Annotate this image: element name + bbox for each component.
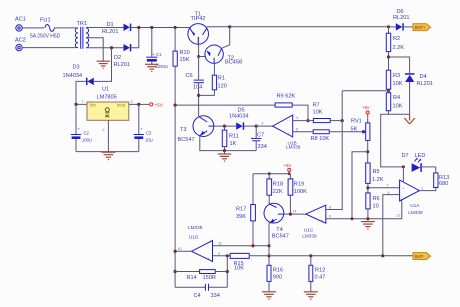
- wire secondary bottom to D2: [86, 47, 124, 49]
- wire D1 cathode along top rail: [131, 27, 190, 29]
- svg-text:LM339: LM339: [188, 225, 203, 230]
- svg-text:9: 9: [329, 215, 331, 219]
- svg-text:10K: 10K: [313, 109, 323, 115]
- wire U1B upper input: [293, 120, 314, 122]
- svg-text:R5: R5: [373, 169, 380, 175]
- svg-text:BAT-: BAT-: [415, 254, 425, 259]
- node (R2-R3 / D4 jog): [387, 55, 390, 58]
- svg-text:+: +: [402, 186, 404, 190]
- wire U1D upper input row: [213, 245, 270, 247]
- wire R1 bottom L: [199, 90, 215, 96]
- resistor R17 39K: [236, 174, 255, 246]
- svg-text:D5: D5: [238, 108, 245, 114]
- svg-text:TR1: TR1: [77, 21, 88, 27]
- svg-text:+: +: [321, 218, 323, 222]
- node (RV1 bottom / line B): [366, 150, 369, 153]
- svg-text:R2: R2: [393, 36, 400, 42]
- node (line B join): [351, 217, 354, 220]
- wire pullup top rail: [253, 173, 290, 175]
- wire R8 right to RV1 wiper: [329, 131, 364, 133]
- wire D3 to U1 Vin: [76, 81, 87, 104]
- svg-text:R7: R7: [313, 103, 320, 109]
- wire U1 Vout to +5V: [129, 103, 150, 105]
- svg-text:LM339: LM339: [302, 234, 317, 239]
- resistor R14 150R: [175, 270, 227, 281]
- node (RV1 wiper): [362, 130, 365, 133]
- wire R3-R4: [388, 89, 390, 93]
- diode D3 1N4034 (cathode left): [63, 65, 94, 85]
- resistor R6 10: [366, 193, 380, 210]
- svg-text:RL201: RL201: [102, 29, 118, 35]
- led D7 LED: [402, 153, 426, 172]
- svg-text:T3: T3: [180, 127, 187, 133]
- port BAT+: [413, 24, 431, 31]
- svg-text:D4: D4: [420, 74, 427, 80]
- wire U1 ground pin: [107, 120, 109, 151]
- svg-text:U1C: U1C: [304, 228, 314, 233]
- capacitor C3 10U: [134, 127, 153, 143]
- svg-text:LM339: LM339: [408, 210, 423, 215]
- terminal AC2: [15, 38, 26, 51]
- svg-text:R3: R3: [393, 73, 400, 79]
- transistor T1 TIP42: [188, 11, 209, 44]
- power port +5V (pullups): [284, 163, 292, 175]
- svg-text:C7: C7: [257, 133, 264, 139]
- svg-text:U1D: U1D: [189, 235, 199, 240]
- ground (divider, arrow style): [404, 114, 415, 124]
- svg-text:2: 2: [262, 122, 264, 126]
- svg-text:FU1: FU1: [40, 18, 51, 24]
- ground (C1): [145, 62, 159, 72]
- svg-text:100U: 100U: [82, 138, 92, 143]
- wire D4 anode down: [409, 82, 411, 114]
- wire AC2 to transformer: [22, 47, 78, 49]
- svg-text:7: 7: [387, 184, 389, 188]
- svg-text:Vin: Vin: [90, 103, 97, 108]
- wire LED cathode row: [422, 166, 436, 168]
- svg-text:2200U: 2200U: [156, 64, 168, 69]
- wire secondary top to D1: [86, 27, 124, 29]
- resistor R18 22K: [267, 174, 283, 196]
- resistor R11 1K: [222, 126, 239, 151]
- svg-text:+: +: [288, 132, 290, 136]
- node (T2 base join): [197, 55, 200, 58]
- svg-text:RL201: RL201: [417, 81, 433, 87]
- svg-text:10K: 10K: [234, 266, 244, 272]
- svg-text:C4: C4: [194, 293, 201, 299]
- node (D1-D2 join): [137, 26, 140, 29]
- wire D2 cathode riser: [131, 28, 139, 48]
- svg-text:LM7805: LM7805: [97, 94, 117, 100]
- node (emitter / bottom rail): [267, 254, 270, 257]
- svg-text:RL201: RL201: [114, 62, 130, 68]
- resistor R7 10K: [313, 103, 331, 123]
- svg-text:+: +: [208, 257, 210, 261]
- svg-text:150R: 150R: [203, 275, 216, 281]
- ground (T3 emitter rail): [218, 151, 232, 162]
- wire R7 right to divider line: [330, 120, 342, 122]
- svg-text:39K: 39K: [236, 214, 246, 220]
- node (R3-R4 divider tap): [387, 89, 390, 92]
- wire U1D output to left rail: [175, 250, 191, 252]
- node (R14 right): [226, 270, 229, 273]
- svg-text:RL201: RL201: [393, 15, 409, 21]
- svg-text:10K: 10K: [393, 103, 403, 109]
- svg-text:R8 10K: R8 10K: [311, 136, 330, 142]
- node (R19 bottom / base): [289, 213, 292, 216]
- svg-text:+5V: +5V: [362, 105, 370, 110]
- resistor R10 15K: [173, 28, 190, 67]
- ground (R12): [304, 292, 318, 299]
- resistor R4 10K: [386, 93, 402, 111]
- svg-text:12: 12: [397, 213, 401, 217]
- svg-text:4: 4: [296, 116, 298, 120]
- op-amp U1A LM339: [387, 180, 424, 215]
- svg-text:C3: C3: [146, 131, 152, 136]
- wire line A (divider to U1C in+): [326, 91, 342, 210]
- capacitor C6 104: [186, 73, 205, 91]
- diode D2 RL201: [114, 44, 132, 68]
- svg-text:D2: D2: [114, 55, 121, 61]
- svg-text:1K: 1K: [230, 141, 237, 147]
- wire top rail right of T1: [207, 26, 389, 28]
- ground (U1 rail): [101, 152, 115, 159]
- op-amp U1B LM339: [262, 115, 301, 149]
- svg-text:R4: R4: [393, 95, 400, 101]
- wire R14 right riser: [226, 256, 228, 287]
- transistor T3 BC547: [178, 116, 214, 143]
- svg-text:+ C1: + C1: [153, 52, 163, 57]
- svg-text:5: 5: [296, 127, 298, 131]
- transformer TR1: [75, 21, 88, 49]
- node (R6 / ground): [366, 217, 369, 220]
- terminal AC1: [15, 17, 26, 31]
- transistor T4 BC547: [264, 203, 289, 239]
- resistor R15 10K: [230, 253, 249, 271]
- wire AC1 to fuse: [22, 27, 44, 29]
- node (R2 top / D6 anode): [387, 25, 390, 28]
- svg-text:2: 2: [103, 128, 105, 132]
- diode D5 1N4034: [229, 108, 249, 130]
- op-amp U1D LM339: [178, 225, 222, 261]
- wire C3 branch: [138, 104, 140, 134]
- svg-text:10: 10: [178, 247, 182, 251]
- capacitor C2 100U: [71, 127, 92, 143]
- svg-text:R12: R12: [315, 267, 325, 273]
- wire D6 anode: [389, 26, 396, 28]
- wire T1 base column: [198, 37, 200, 80]
- resistor R8 10K: [311, 130, 330, 142]
- svg-text:R16: R16: [273, 267, 283, 273]
- svg-text:5A 250V H5D: 5A 250V H5D: [30, 34, 61, 40]
- svg-text:Vout: Vout: [117, 103, 127, 108]
- svg-text:BC547: BC547: [272, 233, 289, 239]
- wire bottom rail to port: [249, 255, 413, 257]
- resistor R16 900: [267, 265, 283, 291]
- svg-text:22K: 22K: [273, 189, 283, 195]
- svg-text:1: 1: [422, 186, 424, 190]
- resistor R9 62K: [275, 93, 295, 107]
- wire line B (RV1 bottom to U1C in-): [352, 152, 368, 219]
- wire C6 bottom / R1 join: [198, 83, 200, 116]
- node (R12 top): [309, 254, 312, 257]
- wire T3 emitter rail: [200, 136, 256, 151]
- svg-text:R19: R19: [294, 182, 304, 188]
- svg-text:D3: D3: [73, 65, 80, 71]
- resistor R19 100K: [288, 174, 307, 214]
- ground (R6): [361, 222, 375, 229]
- svg-text:0.47: 0.47: [315, 274, 326, 280]
- svg-text:BC547: BC547: [178, 137, 195, 143]
- wire tap to U1A in+: [368, 187, 400, 189]
- wire center tap: [86, 38, 103, 61]
- node (C3 tap): [137, 103, 140, 106]
- svg-text:R17: R17: [236, 207, 246, 213]
- svg-text:LED: LED: [415, 153, 426, 159]
- svg-text:1N4034: 1N4034: [229, 114, 249, 120]
- wire U1D lower input: [213, 255, 231, 257]
- wire U1A V+ stub: [402, 167, 404, 182]
- wire R9 right to U1B plus input: [292, 105, 308, 121]
- svg-text:2.2K: 2.2K: [393, 45, 405, 51]
- regulator U1 LM7805: [82, 86, 133, 132]
- wire R4 bottom left branch to LED row: [381, 114, 404, 167]
- wire left feedback rail: [174, 105, 176, 287]
- wire T2 base: [199, 56, 206, 58]
- svg-text:D1: D1: [107, 22, 114, 28]
- svg-text:1N4034: 1N4034: [63, 73, 83, 79]
- wire U1A in- riser to bottom rail: [383, 195, 400, 256]
- svg-text:900: 900: [273, 274, 282, 280]
- svg-text:U1A: U1A: [410, 203, 420, 208]
- svg-text:R6: R6: [373, 196, 380, 202]
- wire U1C in- row / ground row: [326, 218, 402, 220]
- node (T2 collector tap): [228, 25, 231, 28]
- power port +5V: [150, 103, 164, 108]
- node (R11 bottom / ground): [223, 149, 226, 152]
- node (C6-R1-T3 junction): [197, 94, 200, 97]
- wire U1B lower input to R8: [293, 131, 314, 133]
- wire R4 bottom / D4 ground row: [389, 111, 410, 114]
- svg-text:10K: 10K: [393, 81, 403, 87]
- port BAT-: [413, 253, 431, 260]
- node (R5-R6 tap): [366, 186, 369, 189]
- fuse FU1: [30, 18, 61, 40]
- svg-text:+5V: +5V: [284, 163, 292, 168]
- wire bottom rail under U1: [76, 151, 139, 153]
- op-amp U1C LM339: [293, 205, 332, 238]
- svg-text:C6: C6: [186, 73, 193, 79]
- svg-text:TIP42: TIP42: [191, 16, 206, 22]
- resistor R12 0.47: [309, 256, 325, 292]
- transistor T2 BC458: [205, 45, 242, 66]
- wire D4 cathode jog: [389, 57, 410, 73]
- svg-text:15K: 15K: [180, 57, 190, 63]
- svg-text:R14: R14: [187, 275, 197, 281]
- svg-text:680: 680: [439, 181, 448, 187]
- node (R9/R7 join): [306, 119, 309, 122]
- capacitor C1 2200U: [146, 52, 168, 69]
- node (U1D out): [174, 250, 177, 253]
- svg-text:R11: R11: [229, 134, 239, 140]
- diode D4 RL201 (pointing up): [405, 73, 433, 87]
- node (C7 top / U1B out): [255, 125, 258, 128]
- node (U1A in- riser): [381, 254, 384, 257]
- wire R9 left (feedback): [175, 104, 275, 106]
- wire R5-R6 tap: [367, 183, 369, 193]
- wire U1C in+: [326, 209, 342, 211]
- svg-text:AC1: AC1: [15, 17, 26, 23]
- svg-text:1: 1: [82, 99, 84, 103]
- svg-text:T4: T4: [276, 227, 283, 233]
- resistor R2 2.2K: [386, 27, 404, 70]
- node (D7 anode / U1A V+ stub): [402, 165, 405, 168]
- svg-text:R1: R1: [218, 76, 225, 82]
- svg-text:120: 120: [218, 84, 227, 90]
- wire T3 base to R11/D5: [214, 125, 237, 127]
- wire D6 cathode to port: [404, 26, 413, 28]
- node (R7 / line A): [341, 119, 344, 122]
- wire fuse to transformer: [54, 27, 78, 29]
- svg-text:5K: 5K: [351, 126, 358, 132]
- svg-text:10: 10: [373, 204, 379, 210]
- diode D1 RL201: [102, 22, 131, 35]
- wire C2 to bottom rail: [75, 139, 77, 152]
- node (D2 anode tap): [110, 46, 113, 49]
- svg-text:11: 11: [218, 242, 222, 246]
- wire C3 to bottom rail: [138, 139, 140, 152]
- svg-text:1.2K: 1.2K: [372, 177, 384, 183]
- node (R18 top): [268, 172, 271, 175]
- svg-text:BC458: BC458: [225, 60, 242, 66]
- wire U1A output to R13: [419, 188, 435, 191]
- ground (R16): [262, 292, 276, 299]
- wire U1A V- stub: [401, 199, 403, 219]
- wire D5 cathode to C7 node: [244, 125, 256, 127]
- svg-text:14: 14: [293, 210, 297, 214]
- svg-text:104: 104: [193, 85, 202, 91]
- wire D2 tap down to D3: [94, 48, 112, 82]
- power port +5V (RV1 top): [362, 105, 370, 117]
- svg-text:R13: R13: [439, 175, 449, 181]
- svg-text:BAT+: BAT+: [415, 25, 426, 30]
- svg-text:100K: 100K: [294, 189, 307, 195]
- wire C2 branch: [75, 104, 77, 134]
- svg-text:10U: 10U: [145, 138, 153, 143]
- svg-text:R10: R10: [180, 50, 190, 56]
- ground (transformer center tap): [97, 61, 110, 68]
- node (C1 tap): [150, 26, 153, 29]
- wire U1B output: [256, 125, 272, 127]
- wire C1 lead: [151, 28, 153, 57]
- svg-text:LM339: LM339: [286, 144, 301, 149]
- capacitor C4 334: [175, 284, 227, 299]
- svg-text:334: 334: [258, 144, 267, 150]
- wire T4 emitter riser: [268, 223, 270, 265]
- resistor R13 680: [434, 167, 450, 188]
- node (R11 top): [223, 125, 226, 128]
- wire T2 collector to rail: [222, 27, 230, 48]
- wire R18 bottom to T4 collector: [268, 195, 270, 204]
- wire T4 base to U1C output: [284, 213, 306, 215]
- node (emitter / U1D in row): [267, 244, 270, 247]
- resistor R5 1.2K: [366, 163, 384, 184]
- capacitor C7 334: [251, 126, 267, 151]
- wire R6 bottom: [367, 209, 369, 219]
- wiper arrow RV1: [362, 130, 366, 134]
- wire R10 bottom to feedback node: [174, 66, 176, 105]
- svg-text:334: 334: [211, 293, 220, 299]
- potentiometer RV1 5K: [351, 117, 370, 163]
- svg-text:R9 62K: R9 62K: [277, 93, 296, 99]
- node (U1 Vin / C2): [74, 103, 77, 106]
- svg-text:+5V: +5V: [155, 103, 164, 108]
- wire divider tap to line A: [342, 90, 388, 92]
- svg-text:C2: C2: [84, 131, 90, 136]
- svg-text:8: 8: [329, 205, 331, 209]
- node (R10 top tap): [174, 26, 177, 29]
- diode D6 RL201: [393, 9, 409, 31]
- svg-text:D7: D7: [402, 153, 409, 159]
- svg-text:RV1: RV1: [351, 118, 362, 124]
- svg-text:U1: U1: [102, 86, 109, 92]
- node (R17 bottom): [251, 244, 254, 247]
- node (R14 right riser top): [226, 254, 229, 257]
- svg-text:R18: R18: [273, 182, 283, 188]
- node (R14 left): [174, 270, 177, 273]
- resistor R3 10K: [386, 70, 402, 89]
- resistor R1 120: [212, 63, 227, 89]
- svg-text:3: 3: [131, 99, 133, 103]
- svg-text:AC2: AC2: [15, 38, 26, 44]
- node (R10 bottom / R9): [174, 104, 177, 107]
